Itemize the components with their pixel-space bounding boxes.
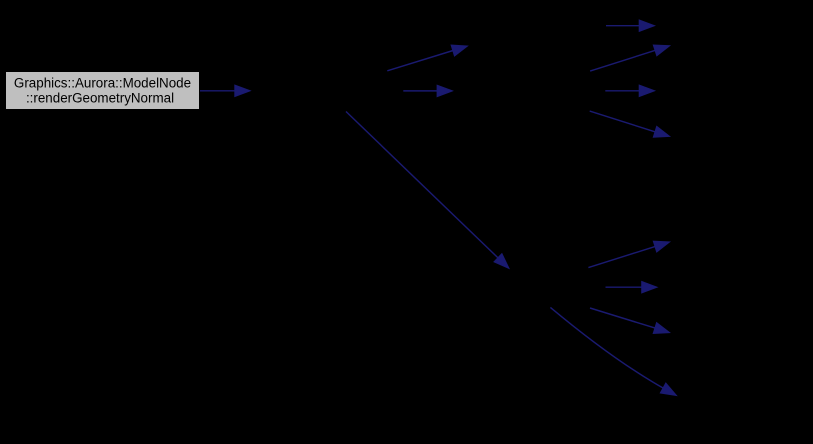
edge node8->node10 (588, 241, 669, 268)
edge node4->node9 (590, 111, 670, 137)
edge node3->node5 (606, 20, 655, 31)
edge node2->node8 (346, 112, 509, 269)
edge node2->node3 (387, 45, 467, 71)
edge node8->node13 (550, 307, 676, 395)
edge node8->node12 (590, 308, 670, 334)
edge node2->node4 (403, 85, 452, 96)
svg-text:::renderGeometryNormal: ::renderGeometryNormal (26, 90, 174, 105)
node main: Graphics::Aurora::ModelNode::renderGeometryNormal (6, 72, 200, 110)
edge node4->node7 (605, 85, 654, 96)
svg-text:Graphics::Aurora::ModelNode: Graphics::Aurora::ModelNode (14, 75, 191, 90)
edge node8->node11 (606, 282, 658, 293)
edge node4->node6 (590, 45, 670, 71)
edge main->node2 (200, 85, 250, 96)
